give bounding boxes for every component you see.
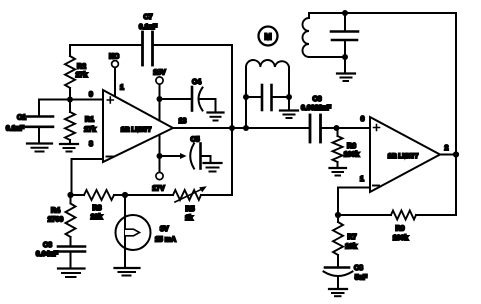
node A: junction R1/R2/+input (67, 97, 73, 103)
node: output / top rail junction (453, 151, 459, 157)
node: pickup tank top (342, 10, 348, 16)
resistor R1 27k (65, 100, 75, 144)
ground (C8) (329, 289, 347, 296)
ground (pickup tank) (337, 57, 355, 81)
label R3 22k (91, 205, 103, 221)
ground (C4) (208, 113, 224, 121)
svg-text:C3: C3 (43, 242, 52, 249)
svg-text:C6: C6 (313, 96, 322, 103)
capacitor C8 5uF (polarized) (324, 268, 353, 289)
resistor R7 10k (333, 215, 343, 267)
capacitor (tank C, right) (331, 13, 358, 57)
resistor R6 100k (333, 128, 343, 167)
resistor R5 1k (variable) (173, 186, 207, 202)
wire: top pickup rail (309, 12, 456, 14)
node: R6 junction (334, 125, 340, 131)
wire: feedback vertical (C7 / output / R5 loop) (231, 45, 233, 195)
node: tank right junction (286, 94, 292, 100)
svg-text:NC: NC (109, 54, 119, 61)
label C1 value 0.1uF (6, 115, 26, 133)
svg-text:C8: C8 (354, 265, 363, 272)
wire: right edge vertical (output to top rail and feedback) (455, 13, 457, 215)
svg-text:5uF: 5uF (355, 275, 368, 282)
op-amp U1b 1/2 LM377 (370, 117, 440, 192)
node: R7/R9 feedback junction (335, 212, 341, 218)
wire: U1b inverting input to feedback node (338, 188, 370, 216)
capacitor (tank C, left) (246, 85, 289, 110)
label R5 1k (185, 206, 194, 222)
svg-text:C5: C5 (191, 137, 200, 144)
ground (R1) (60, 144, 78, 152)
svg-text:22k: 22k (91, 214, 103, 221)
capacitor C1 (26, 100, 53, 143)
label C6 0.0022uF (301, 96, 332, 112)
wire: bottom rail to feedback vertical (201, 194, 232, 196)
node: R4 / R3 / inverting path junction (67, 192, 73, 198)
label 3V 15 mA (155, 226, 176, 244)
node: tank left junction (243, 94, 249, 100)
label R1 27k (84, 117, 96, 134)
svg-text:2700: 2700 (48, 217, 64, 224)
ground (tank L1) (280, 111, 298, 119)
microphone M (259, 27, 278, 46)
svg-text:100k: 100k (393, 235, 409, 242)
svg-text:0.1uF: 0.1uF (139, 24, 158, 31)
svg-text:R6: R6 (347, 143, 356, 150)
capacitor C5 (supply bypass) (160, 144, 211, 169)
power terminal 17V (V- pin U1a) (156, 136, 163, 180)
svg-text:0.04uF: 0.04uF (36, 251, 59, 258)
node: lamp junction (122, 192, 128, 198)
ground (R6) (330, 168, 347, 176)
op-amp U1a 1/2 LM377 (103, 90, 173, 162)
ground (C5) (204, 163, 222, 172)
svg-text:6: 6 (361, 116, 365, 123)
label C3 0.04uF (36, 242, 59, 258)
svg-text:C1: C1 (17, 115, 26, 122)
svg-text:10k: 10k (345, 244, 357, 251)
svg-text:27k: 27k (84, 127, 96, 134)
svg-text:R5: R5 (186, 206, 195, 213)
svg-text:M: M (264, 32, 271, 42)
label C7 value 0.1uF (139, 14, 158, 31)
wire: top feedback from R2 top to C7 (70, 44, 142, 46)
wire: inverting input of U1a down to bottom rail (72, 159, 104, 195)
node: V+ / C4 junction (157, 96, 163, 102)
pin 1 NC terminal (112, 61, 119, 96)
capacitor C7 (143, 32, 153, 65)
wire: feedback rail to output vertical (416, 214, 456, 216)
power terminal 18V (V+ pin U1a) (156, 77, 163, 121)
capacitor C6 0.0022uF (310, 115, 321, 142)
svg-text:1/2 LM377: 1/2 LM377 (121, 127, 152, 134)
label R9 100k (393, 226, 409, 243)
svg-text:9: 9 (89, 92, 93, 99)
svg-text:17V: 17V (152, 186, 165, 193)
label C8 5uF (354, 265, 368, 282)
label R4 2700 (48, 208, 64, 224)
node: V- / C5 junction (157, 153, 163, 159)
wire: bottom rail segment lamp to R5 (114, 194, 173, 196)
svg-text:1/2 LM377: 1/2 LM377 (388, 153, 419, 160)
resistor R4 2700 (66, 195, 76, 246)
svg-text:1: 1 (360, 176, 364, 183)
svg-text:13: 13 (179, 118, 187, 125)
svg-text:0.0022uF: 0.0022uF (301, 105, 332, 112)
label R6 100k (344, 143, 360, 159)
svg-text:2: 2 (445, 145, 449, 152)
svg-text:C7: C7 (144, 14, 153, 21)
label R7 10k (345, 234, 357, 251)
svg-text:15 mA: 15 mA (155, 237, 176, 244)
wire: U1b output (440, 154, 456, 156)
wire: feedback bottom rail (338, 214, 391, 216)
wire: noninverting input line of U1a (39, 99, 103, 101)
wire: U1a output line (173, 127, 309, 129)
svg-text:R7: R7 (348, 234, 357, 241)
ground (lamp) (115, 268, 140, 276)
svg-text:1k: 1k (185, 215, 193, 222)
svg-text:100k: 100k (344, 152, 360, 159)
svg-text:27k: 27k (76, 72, 88, 79)
svg-text:R3: R3 (93, 205, 102, 212)
svg-text:C4: C4 (192, 79, 201, 86)
ground (C1) (27, 144, 52, 152)
wire: C6 to U1b +input (321, 127, 371, 129)
svg-text:1: 1 (120, 85, 124, 92)
resistor R2 27k (65, 45, 75, 100)
svg-text:18V: 18V (153, 70, 166, 77)
resistor R9 100k (391, 211, 416, 220)
svg-text:R1: R1 (85, 117, 94, 124)
lamp 3V 15mA (116, 195, 151, 268)
ground (C3) (58, 269, 85, 278)
wire: C7 right lead to feedback vertical (153, 44, 233, 46)
svg-text:0.1uF: 0.1uF (6, 126, 25, 133)
svg-text:8: 8 (89, 141, 93, 148)
node: pickup tank bottom (342, 54, 348, 60)
svg-text:R4: R4 (51, 208, 60, 215)
inductor L2 (pickup coil) (303, 13, 346, 57)
svg-text:R2: R2 (77, 64, 86, 71)
node: tank L1 tap (243, 125, 249, 131)
label R2 27k (76, 64, 88, 80)
node: feedback taps output line (229, 125, 235, 131)
svg-text:R9: R9 (396, 226, 405, 233)
svg-text:3V: 3V (160, 226, 169, 233)
capacitor C3 0.04uF (57, 247, 85, 268)
wire: bottom rail segment (70, 194, 84, 196)
inductor L1 (tank coil) (246, 60, 289, 128)
capacitor C4 (supply bypass) (160, 87, 216, 112)
resistor R3 22k (84, 190, 114, 200)
